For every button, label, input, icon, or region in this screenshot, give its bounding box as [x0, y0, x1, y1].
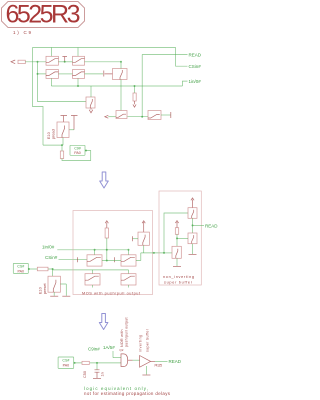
wire gates low — [53, 269, 129, 271]
transistor T5 — [113, 69, 128, 80]
transistor B8 — [148, 111, 161, 120]
wire row1 mid — [58, 61, 72, 63]
wire E10 gate — [69, 129, 74, 131]
svg-text:not for estimating propagation: not for estimating propagation delays — [84, 391, 171, 396]
wire cap — [96, 363, 98, 370]
wire bottom net — [74, 362, 121, 364]
transistor T7 — [138, 232, 149, 245]
wire T6 top — [90, 86, 92, 97]
transistor B4 — [73, 70, 85, 79]
resistor R6 — [60, 151, 63, 159]
svg-text:1in/0#: 1in/0# — [189, 79, 202, 84]
svg-text:non_inverting: non_inverting — [163, 275, 194, 279]
ground T14 — [189, 253, 197, 255]
terminal bar box8 — [170, 112, 172, 118]
node mid push pull — [106, 260, 108, 262]
wire arrow to box7 — [108, 116, 116, 118]
wire R6 bottom loop — [62, 151, 91, 161]
svg-text:74125: 74125 — [154, 363, 162, 367]
title box 6525R3 — [2, 0, 85, 28]
transistor T11 — [121, 274, 136, 285]
svg-text:C9#: C9# — [74, 147, 81, 151]
wire B3 bottom — [50, 78, 52, 86]
wire gate to buffer — [133, 359, 140, 361]
wire T5 vertical — [120, 62, 122, 111]
node row1-row2 — [37, 61, 39, 63]
wire T7 gate stub — [133, 238, 139, 240]
svg-text:PA0: PA0 — [74, 151, 81, 155]
node box bottom — [74, 362, 76, 364]
wire gate B2 — [77, 48, 79, 57]
wire T12 bottom — [53, 292, 55, 296]
transistor T14 — [188, 233, 197, 244]
ground cap — [93, 378, 101, 380]
wire cap gnd — [96, 372, 98, 378]
wire T7 vcc — [143, 222, 145, 232]
wire B4 bottom — [77, 78, 79, 86]
vcc arrow T13 — [191, 198, 194, 200]
wire READ out — [193, 224, 205, 226]
wire T13 vcc — [192, 200, 194, 208]
wire R6 top — [61, 145, 63, 151]
svg-text:NOR with: NOR with — [120, 330, 124, 348]
wire box8 gate stub — [161, 114, 171, 116]
block MOS push pull — [73, 211, 153, 295]
wire CS net — [28, 268, 52, 270]
node row2 tap — [37, 73, 39, 75]
tick T8 gate — [77, 257, 79, 262]
ground T15 — [173, 265, 181, 267]
wire T11 gate — [128, 270, 130, 274]
wire left drop — [33, 48, 44, 146]
node T14 gate — [176, 237, 178, 239]
wire E10 bottom — [62, 138, 64, 146]
wire R1 bottom — [134, 101, 136, 104]
svg-text:super buffer: super buffer — [146, 328, 150, 352]
tick T9 gate — [114, 257, 116, 262]
pin box CS PA0 — [13, 263, 28, 273]
transistor T13 — [188, 208, 197, 219]
wire 1in0 — [182, 81, 187, 86]
node C9 box — [85, 150, 87, 152]
blue arrow 1 — [100, 172, 109, 188]
resistor R4 — [175, 228, 178, 235]
wire gate input1 end — [113, 357, 121, 359]
node bus R1 — [134, 85, 136, 87]
wire T9 top — [128, 250, 130, 255]
svg-text:E10: E10 — [39, 287, 43, 294]
blue arrow 2 — [99, 314, 108, 330]
wire R1 top — [134, 86, 136, 93]
wire bottom link — [43, 144, 62, 146]
wire CSin mid — [59, 259, 88, 261]
node bus B4 — [77, 85, 79, 87]
arrow down R1 — [133, 104, 136, 107]
pin box C9 GND — [70, 145, 85, 155]
transistor T8 — [87, 255, 102, 266]
wire bottom bus — [51, 85, 182, 87]
wire T11 bottom stub — [128, 285, 130, 288]
wire output — [141, 252, 164, 254]
vcc arrow R4 — [175, 221, 178, 223]
wire T15 gnd — [176, 258, 178, 266]
svg-text:E10: E10 — [47, 132, 51, 139]
resistor R5 — [82, 361, 89, 364]
ground T12 right — [62, 295, 70, 297]
svg-text:1A/5#: 1A/5# — [103, 345, 115, 350]
tick T7 gate — [132, 236, 134, 241]
svg-text:push/pull output: push/pull output — [125, 318, 129, 348]
transistor E10 pread — [57, 122, 69, 138]
wire to row2 and T6 gate — [38, 62, 87, 102]
wire T9 right up — [136, 253, 141, 261]
svg-text:C50: C50 — [83, 371, 87, 378]
node output — [153, 252, 155, 254]
svg-text:READ: READ — [169, 359, 182, 364]
svg-text:6525R3: 6525R3 — [6, 0, 81, 28]
arrow down T6 — [89, 110, 93, 113]
svg-text:MOS with push/pull output: MOS with push/pull output — [82, 291, 141, 295]
wire T8 top — [94, 250, 96, 255]
node rail drop — [141, 116, 143, 118]
svg-text:READ: READ — [205, 223, 218, 228]
wire T15 gate — [164, 252, 172, 254]
node T9 top — [128, 249, 130, 251]
wire R2 vcc — [106, 223, 108, 229]
wire R4 vcc — [176, 222, 178, 228]
transistor T12 E10 preset — [48, 276, 60, 292]
resistor R2 — [105, 228, 108, 238]
wire box7 box8 — [128, 116, 149, 118]
wire T6 bottom — [90, 108, 92, 110]
svg-text:READ: READ — [189, 52, 202, 57]
wire row1 left — [25, 61, 46, 63]
transistor B2 — [73, 56, 85, 65]
wire T14 gate — [177, 237, 188, 239]
node row1 T5 — [120, 61, 122, 63]
wire READ — [142, 54, 187, 56]
node buffer input — [163, 252, 165, 254]
svg-text:Q2: Q2 — [119, 348, 123, 352]
transistor B7 — [116, 111, 127, 119]
wire T12 top — [52, 269, 54, 276]
wire row2 mid — [58, 73, 72, 75]
transistor T10 — [85, 274, 100, 285]
resistor R3 — [37, 267, 48, 271]
svg-text:CS#: CS# — [62, 359, 69, 363]
resistor R1 — [133, 93, 136, 101]
svg-text:1n: 1n — [101, 372, 105, 376]
ground buffer — [142, 374, 150, 376]
vcc arrow T7 — [142, 221, 145, 223]
transistor T9 — [121, 255, 136, 266]
wire row2 right with terminal bar — [85, 73, 104, 75]
top rail — [33, 47, 176, 49]
svg-text:preset: preset — [43, 283, 47, 294]
wire buffer enable — [145, 366, 147, 375]
wire T14 gnd — [192, 244, 194, 254]
node READ out — [192, 224, 194, 226]
transistor B1 — [46, 56, 58, 65]
arrow left node — [105, 115, 109, 118]
vcc arrow R2 — [105, 221, 108, 223]
transistor T6 — [86, 97, 95, 108]
node R2 bottom — [106, 249, 108, 251]
pin box — [18, 60, 25, 63]
wire CSin — [176, 48, 188, 67]
svg-text:super buffer: super buffer — [164, 281, 193, 285]
wire gate B1 — [50, 48, 52, 57]
wire gate input1 — [112, 351, 114, 358]
wire R4 bottom — [176, 234, 178, 246]
svg-text:CSin#: CSin# — [45, 255, 58, 260]
vcc T between B1 B2 — [62, 57, 67, 62]
wire T10 bottom stub — [92, 285, 94, 288]
transistor T15 — [172, 246, 181, 258]
svg-text:C9in#: C9in# — [88, 346, 100, 351]
transistor B3 — [46, 70, 58, 79]
svg-text:pread: pread — [52, 129, 56, 139]
gate Q2 NOR — [121, 354, 133, 367]
wire buffer out — [155, 360, 168, 362]
wire READ drop — [141, 55, 143, 117]
node box mid — [28, 268, 30, 270]
wire T13 T14 — [192, 218, 194, 233]
ground T12 — [50, 295, 58, 297]
block super buffer — [159, 191, 201, 285]
vcc bar E10 right — [71, 116, 78, 130]
svg-text:CSin#: CSin# — [189, 64, 202, 69]
buffer U1 74125 — [140, 356, 155, 368]
wire row1 right — [85, 61, 122, 63]
pin box CS PA0 bottom — [58, 357, 74, 368]
vcc bar E10 left — [61, 116, 68, 123]
node T8 top — [94, 249, 96, 251]
svg-text:inverting: inverting — [139, 335, 143, 352]
wire T7 out — [143, 245, 145, 253]
svg-text:CS#: CS# — [17, 265, 24, 269]
wire T8 T9 mid — [102, 260, 121, 262]
node T vcc — [64, 61, 66, 63]
wire 1in0 mid — [57, 249, 128, 251]
node cap — [96, 362, 98, 364]
terminal bar — [104, 71, 113, 77]
capacitor C50 — [95, 370, 100, 372]
node CS net — [52, 268, 54, 270]
svg-text:1in/0#: 1in/0# — [42, 244, 55, 249]
svg-text:PA0: PA0 — [63, 364, 70, 368]
wire T12 gate right — [60, 284, 66, 296]
node R6 — [61, 144, 63, 146]
wire buffer input up — [164, 213, 188, 253]
pin arrow left — [11, 60, 15, 64]
svg-text:PA0: PA0 — [18, 269, 25, 273]
wire T10 gate — [92, 270, 94, 274]
wire R2 bottom — [106, 238, 108, 261]
